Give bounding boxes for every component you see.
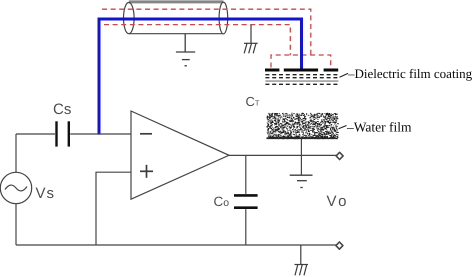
- sensor electrode plates (black segmented): [265, 69, 338, 72]
- capacitor C0: [245, 155, 247, 245]
- coax cable shield (cylinder): [0, 0, 1, 1]
- capacitor Cs plates: [57, 121, 69, 146]
- water film (stippled): [267, 113, 340, 139]
- leader tick: dielectric label: [340, 73, 349, 77]
- op-amp plus pin label: [140, 165, 153, 178]
- chassis ground at bottom rail: [295, 245, 309, 275]
- dielectric film hatching: [265, 75, 338, 85]
- guard trace (red dashed, lower run): [104, 25, 290, 56]
- guard ring at sensor (red dashed): [271, 55, 331, 68]
- op-amp U1: [131, 111, 229, 199]
- op-amp minus pin label: [140, 133, 152, 135]
- guard trace (red dashed, upper run): [102, 9, 311, 55]
- wire: water film to ground: [300, 139, 302, 175]
- wire: source bottom lead: [15, 204, 17, 245]
- source Vs: [0, 172, 31, 203]
- svg-text:–Dielectric film coating: –Dielectric film coating: [347, 66, 473, 81]
- wire: source top lead: [15, 134, 17, 172]
- svg-text:Vo: Vo: [327, 193, 350, 210]
- svg-text:Co: Co: [214, 194, 230, 209]
- svg-text:Cs: Cs: [53, 101, 71, 118]
- svg-text:CT: CT: [246, 94, 260, 109]
- wire: output net: [229, 154, 336, 156]
- svg-text:–Water film: –Water film: [346, 120, 412, 135]
- earth ground at water film: [290, 175, 313, 187]
- chassis ground on guard: [244, 25, 258, 54]
- leader tick: water label: [339, 126, 347, 129]
- wire: minus-input net: [16, 133, 131, 135]
- svg-text:Vs: Vs: [36, 185, 56, 202]
- terminal Vo top: [336, 152, 343, 159]
- wire: plus-input net: [96, 172, 131, 245]
- wire: bottom rail: [16, 244, 336, 246]
- earth ground on cable shield: [176, 34, 195, 66]
- terminal Vo bottom: [336, 242, 343, 249]
- sense electrode wire (blue): [99, 19, 302, 135]
